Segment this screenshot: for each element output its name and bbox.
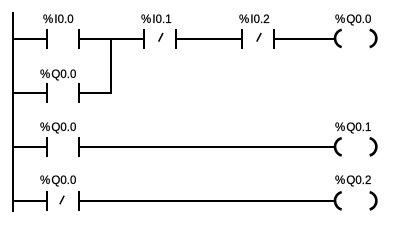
svg-text:%Q0.0: %Q0.0: [40, 122, 76, 134]
svg-text:%I0.2: %I0.2: [239, 14, 270, 26]
svg-text:%Q0.0: %Q0.0: [40, 69, 76, 81]
svg-text:%I0.1: %I0.1: [141, 14, 172, 26]
svg-text:%Q0.2: %Q0.2: [335, 175, 371, 187]
svg-text:%Q0.0: %Q0.0: [335, 14, 371, 26]
svg-text:%Q0.1: %Q0.1: [335, 122, 371, 134]
svg-text:%Q0.0: %Q0.0: [40, 175, 76, 187]
svg-text:%I0.0: %I0.0: [43, 14, 74, 26]
